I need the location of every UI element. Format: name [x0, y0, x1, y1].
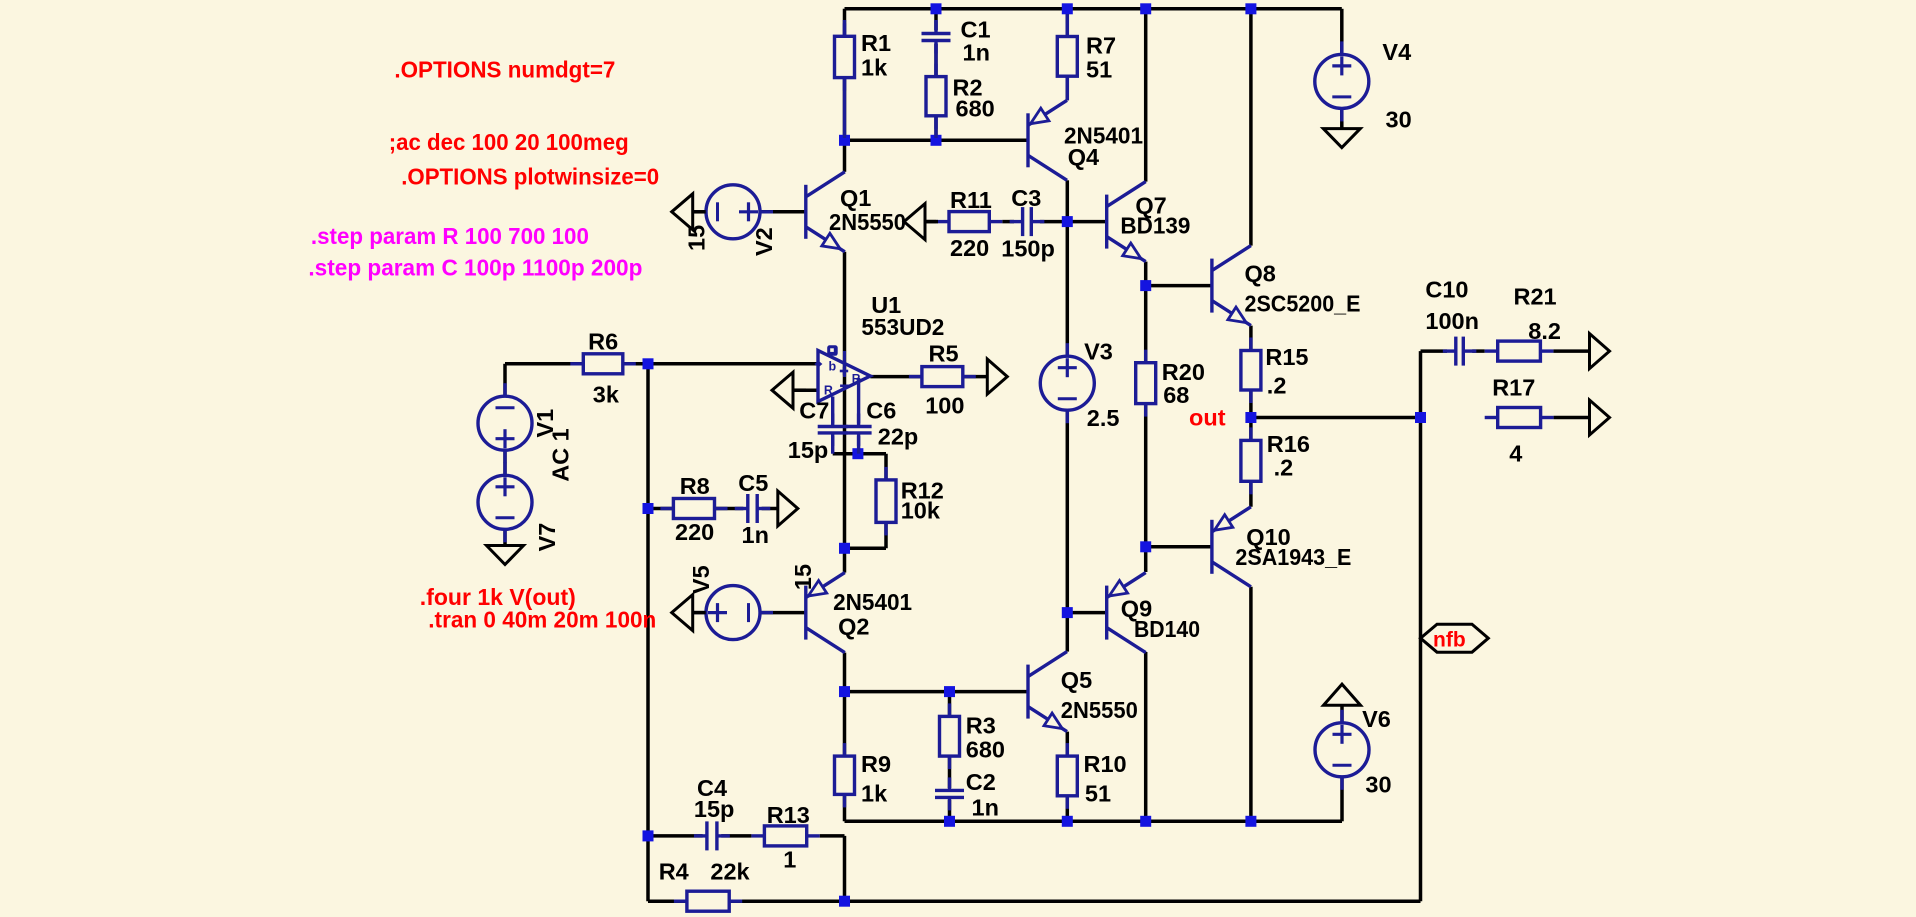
wire R1 branch — [843, 9, 847, 141]
capacitor C3 — [1010, 207, 1045, 236]
svg-text:8.2: 8.2 — [1528, 318, 1561, 344]
svg-text:R6: R6 — [588, 329, 618, 355]
label Q4 type — [1064, 122, 1143, 148]
wire V1 to R6 to opamp input — [505, 362, 818, 366]
resistor R7 — [1057, 24, 1077, 90]
junction lower rail C2 — [944, 816, 955, 827]
label C3 — [1011, 185, 1041, 211]
wire C4 left lead — [648, 834, 703, 838]
junction C6 node — [852, 448, 863, 459]
capacitor C10 — [1443, 337, 1477, 366]
resistor R20 — [1136, 350, 1156, 417]
ground at V2 — [672, 194, 706, 230]
value R20 — [1163, 382, 1189, 408]
op-amp U1 553UD2 — [814, 345, 870, 401]
svg-text:R10: R10 — [1084, 751, 1127, 777]
svg-text:2N5401: 2N5401 — [833, 589, 912, 615]
wire R13 to corner down — [820, 836, 845, 901]
spice directive options numdgt — [394, 57, 615, 83]
label Q9 — [1121, 596, 1152, 622]
value R7 — [1086, 57, 1112, 83]
value V5 — [790, 564, 816, 590]
resistor R1 — [835, 23, 855, 90]
wire Q5 base row — [845, 690, 1029, 694]
svg-text:Q4: Q4 — [1068, 144, 1099, 170]
wire V2 to Q1 base — [760, 210, 806, 214]
svg-text:51: 51 — [1085, 781, 1111, 807]
resistor R8 — [660, 499, 727, 519]
wire C1 top lead — [934, 9, 938, 30]
wire Q9 emitter up — [1144, 547, 1148, 572]
wire R11 ground stub — [925, 220, 936, 224]
svg-text:;ac dec 100 20 100meg: ;ac dec 100 20 100meg — [389, 129, 629, 155]
resistor R11 — [936, 212, 1002, 232]
label Q2 — [838, 614, 869, 640]
voltage source V2 — [693, 185, 773, 239]
transistor Q5 2N5550 — [1028, 652, 1067, 732]
voltage source V6 — [1315, 710, 1369, 790]
label R21 — [1514, 284, 1557, 310]
svg-text:1n: 1n — [963, 40, 990, 66]
value R10 — [1085, 781, 1111, 807]
port nfb — [1421, 624, 1489, 652]
voltage source V4 — [1315, 41, 1369, 121]
wire V4 to ground — [1340, 108, 1344, 128]
svg-text:.step param R 100 700 100: .step param R 100 700 100 — [311, 223, 589, 249]
svg-text:R5: R5 — [929, 340, 959, 366]
value V6 — [1365, 772, 1391, 798]
wire Q1 collector — [843, 140, 847, 172]
voltage source V7 — [478, 462, 532, 542]
label V3 — [1084, 338, 1113, 364]
junction C3 node — [1062, 216, 1073, 227]
label Q8 type — [1245, 291, 1361, 317]
wire top supply rail — [845, 7, 1342, 11]
junction top rail R7 — [1062, 3, 1073, 14]
wire R7 navy leads — [1066, 14, 1069, 100]
wire V6 top to ground — [1340, 705, 1344, 724]
wire C5 to arrow — [762, 507, 778, 511]
label out — [1189, 405, 1226, 431]
value R5 — [925, 393, 964, 419]
ground at R11 — [904, 204, 938, 240]
label Q7 type — [1120, 213, 1190, 239]
svg-text:nfb: nfb — [1433, 629, 1466, 652]
label V7 — [534, 523, 560, 552]
svg-text:68: 68 — [1163, 382, 1189, 408]
svg-text:C5: C5 — [738, 470, 768, 496]
wire R20 branch — [1144, 286, 1148, 547]
svg-text:.OPTIONS plotwinsize=0: .OPTIONS plotwinsize=0 — [401, 164, 659, 190]
svg-text:R: R — [852, 372, 861, 386]
wire second rail — [845, 139, 1029, 143]
spice directive step C — [308, 255, 642, 281]
wire V5 to Q2 base — [760, 611, 806, 615]
svg-text:V3: V3 — [1084, 338, 1113, 364]
svg-text:51: 51 — [1086, 57, 1112, 83]
label R4 — [659, 858, 689, 884]
label C2 — [966, 769, 996, 795]
value V1 — [548, 428, 574, 482]
wire Q4 collector down — [1066, 180, 1070, 221]
value C2 — [972, 795, 999, 821]
label R13 — [767, 802, 810, 828]
value R9 — [861, 781, 888, 807]
svg-text:30: 30 — [1386, 107, 1412, 133]
label Q8 — [1245, 260, 1276, 286]
svg-text:Q5: Q5 — [1061, 667, 1092, 693]
junction Q8 base node — [1140, 280, 1151, 291]
transistor Q9 BD140 — [1107, 573, 1146, 653]
wire feedback column — [646, 364, 650, 901]
label Q2 type — [833, 589, 912, 615]
wire C3 to node — [1040, 220, 1067, 224]
spice directive plotwinsize — [401, 164, 659, 190]
label R8 — [680, 473, 710, 499]
wire R12 branch — [845, 454, 887, 549]
wire R1 navy leads — [843, 20, 846, 138]
label R7 — [1086, 33, 1116, 59]
wire Q7 emitter down — [1144, 262, 1148, 286]
label V6 — [1362, 706, 1391, 732]
svg-text:V6: V6 — [1362, 706, 1391, 732]
wire Q2 emitter up — [843, 548, 847, 572]
resistor R17 — [1485, 408, 1554, 428]
value R6 — [593, 381, 620, 407]
wire V3 bottom to Q9 base node — [1066, 410, 1070, 612]
value R2 — [956, 96, 995, 122]
junction C4 node — [643, 830, 654, 841]
label R3 — [966, 713, 996, 739]
capacitor C7 leads — [831, 397, 834, 454]
label Q9 type — [1134, 616, 1200, 642]
svg-text:BD140: BD140 — [1134, 616, 1200, 642]
label Q5 — [1061, 667, 1092, 693]
transistor Q7 BD139 — [1107, 182, 1146, 262]
ground below V7 — [487, 546, 524, 565]
wire lower rail — [845, 820, 1343, 824]
wire V4 top lead — [1340, 9, 1344, 55]
svg-text:150p: 150p — [1001, 235, 1055, 261]
wire opamp inverting input ground — [793, 388, 819, 392]
svg-text:15p: 15p — [788, 437, 829, 463]
value C4 — [694, 796, 735, 822]
svg-text:1: 1 — [783, 847, 796, 873]
svg-text:.tran 0 40m 20m 100n: .tran 0 40m 20m 100n — [428, 606, 656, 632]
wire Q9 base node to Q5 collector — [1066, 613, 1070, 652]
transistor Q10 2SA1943 — [1212, 507, 1251, 587]
svg-text:15p: 15p — [694, 796, 735, 822]
value R8 — [675, 519, 714, 545]
capacitor C2 — [935, 777, 964, 810]
svg-text:AC 1: AC 1 — [548, 428, 574, 482]
resistor R3 — [940, 703, 960, 769]
svg-text:out: out — [1189, 405, 1226, 431]
label R16 — [1267, 431, 1310, 457]
capacitor C6 — [846, 414, 872, 446]
resistor R9 — [835, 743, 855, 807]
svg-text:R15: R15 — [1265, 344, 1308, 370]
svg-text:10k: 10k — [901, 497, 941, 523]
svg-text:4: 4 — [1509, 441, 1522, 467]
svg-text:b: b — [829, 360, 837, 374]
resistor R15 — [1241, 338, 1261, 404]
ground above V6 — [1324, 684, 1361, 705]
label Q5 type — [1061, 697, 1138, 723]
label R2 — [953, 75, 983, 101]
wire R11 to C3 — [1002, 220, 1014, 224]
resistor R10 — [1057, 743, 1077, 809]
capacitor C7 — [818, 414, 848, 446]
value V2 — [684, 225, 710, 251]
svg-text:3k: 3k — [593, 381, 620, 407]
capacitor C1 — [922, 21, 951, 54]
svg-text:C7: C7 — [799, 398, 829, 424]
voltage source V3 — [1040, 343, 1094, 423]
wire R7 branch — [1066, 9, 1070, 101]
svg-text:1k: 1k — [861, 55, 888, 81]
value C1 — [963, 40, 990, 66]
svg-text:22k: 22k — [710, 858, 750, 884]
svg-text:V2: V2 — [751, 227, 777, 256]
label R20 — [1162, 359, 1205, 385]
value C10 — [1425, 308, 1479, 334]
junction lower rail R10 — [1062, 816, 1073, 827]
svg-text:BD139: BD139 — [1120, 213, 1190, 239]
label R5 — [929, 340, 959, 366]
label V2 — [751, 227, 777, 256]
svg-text:R1: R1 — [861, 30, 891, 56]
svg-text:V4: V4 — [1382, 39, 1411, 65]
wire R9 branch — [843, 692, 847, 822]
svg-text:2N5550: 2N5550 — [1061, 697, 1138, 723]
value R21 — [1528, 318, 1561, 344]
spice directive tran — [428, 606, 656, 632]
label R9 — [861, 751, 891, 777]
output port arrow R5 — [987, 359, 1007, 394]
svg-text:R17: R17 — [1492, 375, 1535, 401]
svg-text:C10: C10 — [1425, 276, 1468, 302]
svg-text:220: 220 — [675, 519, 714, 545]
svg-text:R13: R13 — [767, 802, 810, 828]
wire Q8 base — [1146, 284, 1212, 288]
wire Q2 collector down — [843, 653, 847, 692]
svg-text:15: 15 — [684, 225, 710, 251]
wire C6 C7 bottom row — [833, 452, 886, 456]
wire Q10 collector down — [1249, 587, 1253, 822]
value C5 — [742, 522, 769, 548]
svg-text:R4: R4 — [659, 858, 689, 884]
junction lower rail Q9 — [1140, 816, 1151, 827]
junction R6 node — [643, 358, 654, 369]
svg-text:Q1: Q1 — [840, 185, 871, 211]
wire Q10 base — [1146, 545, 1212, 549]
wire Q9 collector down — [1144, 652, 1148, 821]
wire Q5 emitter to R10 — [1066, 732, 1070, 822]
value C7 — [788, 437, 829, 463]
spice directive four — [420, 584, 576, 610]
resistor R13 — [751, 826, 819, 846]
wire Q1 emitter long run — [843, 252, 847, 549]
junction out R17 node — [1415, 412, 1426, 423]
label Q1 type — [829, 209, 906, 235]
wire nfb column — [1419, 418, 1423, 902]
label R12 — [901, 478, 944, 504]
label C4 — [697, 775, 727, 801]
value R12 — [901, 497, 941, 523]
resistor R2 — [926, 64, 946, 129]
value R15 — [1267, 373, 1287, 399]
wire V6 bottom lead — [1340, 776, 1344, 822]
wire C10 to R21 — [1472, 349, 1485, 353]
wire Q9 base — [1067, 611, 1106, 615]
spice directive step R — [311, 223, 589, 249]
resistor R4 — [674, 891, 742, 911]
voltage source V5 — [693, 586, 773, 640]
label V1 — [532, 409, 558, 438]
junction Q9 base node — [1062, 607, 1073, 618]
capacitor C5 — [735, 494, 771, 523]
label U1 — [871, 292, 901, 318]
transistor Q8 2SC5200 — [1212, 246, 1251, 326]
svg-text:680: 680 — [966, 737, 1005, 763]
wire C2 to rail — [948, 800, 952, 822]
junction top rail Q7 collector — [1140, 3, 1151, 14]
wire V1 top lead — [503, 364, 507, 396]
junction Q2 emitter node — [839, 543, 850, 554]
svg-text:1k: 1k — [861, 781, 888, 807]
resistor R5 — [909, 367, 976, 387]
svg-text:R9: R9 — [861, 751, 891, 777]
svg-text:2SC5200_E: 2SC5200_E — [1245, 291, 1361, 317]
label C1 — [961, 17, 991, 43]
junction second rail R1 — [839, 135, 850, 146]
svg-text:C6: C6 — [866, 398, 896, 424]
svg-text:R8: R8 — [680, 473, 710, 499]
svg-text:30: 30 — [1365, 772, 1391, 798]
svg-text:.step param C 100p 1100p 200p: .step param C 100p 1100p 200p — [308, 255, 642, 281]
output port arrow R21 — [1590, 334, 1610, 369]
wire out row — [1251, 416, 1421, 420]
label U1 type — [861, 314, 944, 340]
wire R3 branch — [948, 692, 952, 788]
label C7 — [799, 398, 829, 424]
wire R8 row — [648, 507, 743, 511]
label R10 — [1084, 751, 1127, 777]
svg-text:V5: V5 — [688, 565, 714, 594]
junction top rail Q8 collector — [1245, 3, 1256, 14]
svg-text:.2: .2 — [1267, 373, 1287, 399]
junction bottom rail R13 — [839, 896, 850, 907]
svg-text:Q2: Q2 — [838, 614, 869, 640]
svg-text:R21: R21 — [1514, 284, 1557, 310]
value R16 — [1274, 454, 1294, 480]
svg-text:2SA1943_E: 2SA1943_E — [1235, 544, 1351, 570]
output port arrow C5 — [778, 491, 798, 526]
junction second rail R2 — [931, 135, 942, 146]
junction R8 node — [643, 503, 654, 514]
capacitor C6 leads — [857, 378, 860, 454]
label R11 — [950, 187, 992, 213]
svg-text:680: 680 — [956, 96, 995, 122]
output port arrow R17 — [1590, 400, 1610, 435]
wire bottom feedback rail — [648, 899, 1421, 903]
svg-text:R20: R20 — [1162, 359, 1205, 385]
wire V7 to ground — [503, 529, 507, 545]
wire Q8 collector up — [1249, 9, 1253, 246]
wire Q7 base — [1067, 220, 1106, 224]
junction out node — [1245, 412, 1256, 423]
wire R16 branch — [1249, 418, 1253, 507]
svg-text:1n: 1n — [972, 795, 999, 821]
voltage source V1 — [478, 383, 532, 463]
junction R3 node — [944, 686, 955, 697]
label R1 — [861, 30, 891, 56]
resistor R6 — [570, 354, 636, 374]
svg-text:C3: C3 — [1011, 185, 1041, 211]
svg-text:.OPTIONS numdgt=7: .OPTIONS numdgt=7 — [394, 57, 615, 83]
junction lower rail Q10 — [1245, 816, 1256, 827]
wire C10 row left — [1421, 349, 1448, 353]
transistor Q4 2N5401 — [1028, 100, 1067, 180]
svg-text:Q8: Q8 — [1245, 260, 1276, 286]
label V4 — [1382, 39, 1411, 65]
svg-text:R11: R11 — [950, 187, 992, 213]
wire V1 to V7 — [503, 450, 507, 475]
junction Q2 collector node — [839, 686, 850, 697]
svg-text:2N5550: 2N5550 — [829, 209, 906, 235]
label Q10 type — [1235, 544, 1351, 570]
junction Q10 base node — [1140, 541, 1151, 552]
spice comment ac dec — [389, 129, 629, 155]
transistor Q2 2N5401 — [806, 573, 845, 653]
value R4 — [710, 858, 750, 884]
resistor R16 — [1241, 427, 1261, 494]
svg-text:100: 100 — [925, 393, 964, 419]
wire node to V3 top — [1066, 222, 1070, 357]
svg-text:V7: V7 — [534, 523, 560, 552]
label Q4 — [1068, 144, 1099, 170]
label Q10 — [1246, 524, 1290, 550]
wire R17 to port — [1554, 416, 1590, 420]
svg-text:R: R — [824, 384, 833, 398]
value C3 — [1001, 235, 1055, 261]
svg-text:R16: R16 — [1267, 431, 1310, 457]
svg-text:100n: 100n — [1425, 308, 1479, 334]
wire C10 branch up — [1419, 351, 1423, 417]
svg-text:22p: 22p — [878, 424, 919, 450]
label C6 — [866, 398, 896, 424]
label R6 — [588, 329, 618, 355]
svg-text:2.5: 2.5 — [1087, 405, 1120, 431]
svg-text:C2: C2 — [966, 769, 996, 795]
resistor R21 — [1485, 341, 1554, 361]
svg-text:220: 220 — [950, 235, 989, 261]
wire R21 to port — [1553, 349, 1589, 353]
value R11 — [950, 235, 989, 261]
ground below V4 — [1323, 129, 1360, 148]
label R17 — [1492, 375, 1535, 401]
label R15 — [1265, 344, 1308, 370]
value R13 — [783, 847, 796, 873]
junction top rail C1 — [931, 3, 942, 14]
svg-text:553UD2: 553UD2 — [861, 314, 944, 340]
wire C1 R2 navy links — [934, 20, 937, 138]
svg-text:.2: .2 — [1274, 454, 1294, 480]
value R17 — [1509, 441, 1522, 467]
svg-text:1n: 1n — [742, 522, 769, 548]
value R3 — [966, 737, 1005, 763]
